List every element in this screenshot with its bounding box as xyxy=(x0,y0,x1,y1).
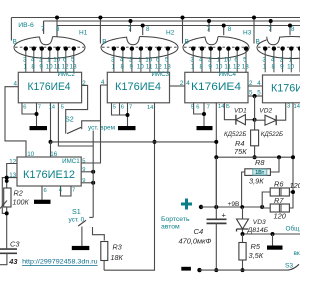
terminal minus xyxy=(181,267,191,271)
label KD522B 2 xyxy=(261,131,283,138)
svg-text:В: В xyxy=(102,39,106,46)
svg-text:S3: S3 xyxy=(285,263,293,270)
label R2 xyxy=(14,189,23,198)
svg-text:ИМС3: ИМС3 xyxy=(151,71,169,78)
label pin 4/8 xyxy=(31,56,35,70)
svg-text:10: 10 xyxy=(46,63,54,70)
tube H1 segment pin 10 lead xyxy=(56,46,60,72)
svg-text:+: + xyxy=(222,211,227,220)
chip name К176ИЕ4 xyxy=(115,81,161,93)
svg-text:5: 5 xyxy=(191,105,194,111)
label IMS1 xyxy=(62,158,80,165)
label 3 chip4 xyxy=(287,104,290,110)
svg-text:4: 4 xyxy=(199,56,203,63)
svg-text:Д814Б: Д814Б xyxy=(247,227,269,234)
label 4 chip1 xyxy=(13,80,17,87)
tube H4 segment pin 10 lead xyxy=(298,46,302,72)
svg-text:ИМС4: ИМС4 xyxy=(218,71,236,78)
label R4 xyxy=(235,139,244,148)
svg-text:6: 6 xyxy=(234,56,238,63)
svg-text:7: 7 xyxy=(41,26,45,33)
diode VD2 xyxy=(255,115,277,125)
svg-text:R8: R8 xyxy=(255,158,265,167)
tube H3 grid dashed line xyxy=(184,46,248,48)
chip name K176IE right xyxy=(271,83,303,95)
label pin 3/1 xyxy=(111,56,115,70)
svg-text:5: 5 xyxy=(243,56,247,63)
svg-text:уст. 0: уст. 0 xyxy=(69,217,85,224)
svg-text:6: 6 xyxy=(196,105,199,111)
svg-text:10: 10 xyxy=(137,63,145,70)
svg-text:4: 4 xyxy=(271,56,275,63)
label pin 3/1 xyxy=(23,56,27,70)
wire pin 7 chip1 xyxy=(36,103,38,126)
label 120 R7 xyxy=(274,212,287,221)
diode VD1 xyxy=(236,115,255,125)
VFD tube H3 envelope xyxy=(183,34,249,59)
svg-text:К176ИЕ4: К176ИЕ4 xyxy=(28,81,71,93)
label S3 xyxy=(285,263,293,270)
wire R5 bottom xyxy=(242,260,244,270)
label 14 chip2 xyxy=(147,105,154,111)
svg-text:3: 3 xyxy=(287,104,290,110)
junction chip2 gnd xyxy=(126,113,130,117)
junction rail2/tube2 xyxy=(129,19,133,23)
svg-text:В: В xyxy=(256,39,260,46)
svg-text:7: 7 xyxy=(129,105,132,111)
svg-text:3,5К: 3,5К xyxy=(249,251,264,260)
svg-text:вк: вк xyxy=(294,250,300,257)
svg-text:10: 10 xyxy=(145,56,153,63)
label 8 tube H1 xyxy=(56,26,60,33)
label C4 xyxy=(194,227,204,236)
wire 157 rail xyxy=(216,156,293,158)
wire R2 bottom xyxy=(6,207,8,248)
svg-text:1Вт: 1Вт xyxy=(255,170,265,176)
label 75K xyxy=(234,147,247,156)
junction rail1/tube4 xyxy=(252,16,256,20)
svg-text:http://299792458.3dn.ru: http://299792458.3dn.ru xyxy=(22,259,98,266)
junction bus end xyxy=(214,140,218,144)
label 14 chip1 xyxy=(49,105,56,111)
svg-text:R6: R6 xyxy=(274,180,284,189)
svg-text:3,9К: 3,9К xyxy=(249,177,264,186)
svg-text:7: 7 xyxy=(128,26,132,33)
label plus terminal xyxy=(181,199,192,210)
label 9 IMS1r xyxy=(82,167,85,173)
label 6 chip3 xyxy=(196,105,199,111)
junction 9V/216 xyxy=(214,205,218,209)
label 1Vt xyxy=(253,169,267,176)
wire bottom right xyxy=(200,269,289,271)
tube H3 segment pin 4 lead xyxy=(200,46,204,72)
junction pin12/pin13 xyxy=(5,176,9,180)
svg-text:7: 7 xyxy=(207,26,211,33)
label 7 tube H2 xyxy=(128,26,132,33)
label 10 IMS1 xyxy=(27,151,34,158)
tube H1 grid dashed line xyxy=(15,46,84,48)
svg-text:8: 8 xyxy=(120,63,124,70)
label R8 xyxy=(255,158,265,167)
svg-text:Бортсеть: Бортсеть xyxy=(161,216,190,223)
svg-text:1: 1 xyxy=(263,63,267,70)
tube H4 segment pin 3 lead xyxy=(263,46,267,72)
chip name К176ИЕ4 xyxy=(28,81,71,93)
wire IMS1 pin6 gnd xyxy=(41,186,43,200)
label pin 10/11 xyxy=(53,56,61,70)
svg-text:43: 43 xyxy=(8,257,18,266)
tube H3 segment pin 6 lead xyxy=(235,46,239,72)
wire S1 path to R3 xyxy=(93,227,105,241)
label 7 chip2b xyxy=(129,105,132,111)
junction 157/293 xyxy=(291,155,295,159)
tube H2 segment pin 3 lead xyxy=(112,46,116,72)
label 7 tube H3 xyxy=(207,26,211,33)
svg-text:7: 7 xyxy=(38,105,41,111)
wire common rail xyxy=(243,233,301,235)
tube H1 pin7 heater lead xyxy=(43,21,45,32)
wire chip3 pin14 drop xyxy=(215,103,217,207)
label VD3 xyxy=(253,219,266,226)
svg-text:1: 1 xyxy=(217,56,221,63)
tube H1 segment pin 5 lead xyxy=(72,46,76,72)
junction C4/bottom xyxy=(214,268,218,272)
label pin 4/8 xyxy=(199,56,203,70)
svg-text:1: 1 xyxy=(111,63,115,70)
tube H1 segment pin 6 lead xyxy=(64,46,68,72)
label pin 6/12 xyxy=(233,56,241,70)
svg-text:H2: H2 xyxy=(166,30,175,37)
label pin 10/11 xyxy=(145,56,153,70)
label 5 chip1 xyxy=(61,105,64,111)
wire S1 feed xyxy=(89,131,93,218)
wire chip1 pin2 to S2 pivot xyxy=(66,85,88,133)
label 8 tube H3 xyxy=(228,26,232,33)
svg-text:100К: 100К xyxy=(13,198,30,207)
svg-text:VD1: VD1 xyxy=(234,108,247,115)
wire IMS1 pin13 left xyxy=(2,178,17,214)
junction rail2/tube3 xyxy=(207,19,211,23)
label ust vrem xyxy=(88,125,115,132)
svg-text:8: 8 xyxy=(228,26,232,33)
wire chip3 pin13 to VD1 xyxy=(224,103,236,120)
svg-text:9: 9 xyxy=(82,178,85,184)
wire IMS1 pin11 right xyxy=(81,182,93,184)
svg-text:13: 13 xyxy=(242,63,250,70)
label VD2 xyxy=(259,108,272,115)
svg-text:H3: H3 xyxy=(243,30,252,37)
label 14 chip3 xyxy=(218,104,225,110)
wire chip1 pin4 to IMS1 pin10 xyxy=(5,87,26,157)
wire heater rail 3 xyxy=(55,16,300,38)
counter IC U5 box xyxy=(263,75,308,103)
wire pin 5 chip2 xyxy=(112,103,128,115)
junction R2/pin13 path xyxy=(5,211,9,215)
wire heater rail 2 xyxy=(44,21,300,40)
zener VD3 xyxy=(237,219,249,232)
wire pin 6 chip3 xyxy=(194,103,204,114)
tube H2 grid dashed line xyxy=(102,46,177,48)
wire IMS1 pin9 right xyxy=(81,171,93,173)
label pin 2/9 xyxy=(129,56,133,70)
junction 9V/262 xyxy=(260,205,264,209)
wire R5 top xyxy=(242,234,244,243)
label B tube H3 xyxy=(185,39,189,46)
svg-text:3: 3 xyxy=(190,56,194,63)
label 100K xyxy=(13,198,30,207)
junction chip1 xyxy=(35,112,39,116)
label 2 chip2 xyxy=(180,80,184,87)
wire pin 6 chip1 xyxy=(22,103,37,114)
svg-text:14: 14 xyxy=(147,105,154,111)
wire R6R7 right xyxy=(289,192,293,208)
svg-text:7: 7 xyxy=(207,105,210,111)
junction rail2/tube4 xyxy=(269,19,273,23)
terminal bar common xyxy=(267,246,283,250)
label ust 0 xyxy=(69,217,85,224)
svg-text:5: 5 xyxy=(165,56,169,63)
wire chip1 pin14 xyxy=(50,103,52,142)
wire S1 contact xyxy=(81,227,83,246)
tube H4 segment pin 4 lead xyxy=(272,46,276,72)
label 14 chip4 xyxy=(294,104,301,110)
label ИМС4 xyxy=(218,71,236,78)
svg-text:2: 2 xyxy=(82,80,86,87)
svg-text:8: 8 xyxy=(271,63,275,70)
svg-text:5: 5 xyxy=(71,56,75,63)
junction R4 node xyxy=(253,155,257,159)
svg-text:4: 4 xyxy=(186,80,190,87)
wire IMS1 pin12 to R2 xyxy=(7,164,17,189)
svg-text:4: 4 xyxy=(13,80,17,87)
tube H2 pin7 heater lead xyxy=(130,21,132,32)
svg-text:К176И: К176И xyxy=(271,83,300,95)
svg-text:К176ИЕ4: К176ИЕ4 xyxy=(115,81,161,93)
wire VD3 bottom xyxy=(242,229,244,234)
svg-text:5: 5 xyxy=(257,90,261,97)
svg-text:1: 1 xyxy=(23,63,27,70)
label 5 chip4 xyxy=(257,90,261,97)
svg-text:11: 11 xyxy=(224,63,231,70)
terminal bar S1 xyxy=(72,246,90,250)
tube H4 pin B lead xyxy=(253,18,255,44)
label pin 4/8 xyxy=(120,56,124,70)
svg-text:2: 2 xyxy=(249,80,253,87)
svg-text:КД522Б: КД522Б xyxy=(224,131,246,138)
tube H2 segment pin 2 lead xyxy=(130,46,134,72)
wire chip3-chip4 upper link xyxy=(248,85,263,87)
terminal minus dot xyxy=(197,268,201,272)
wire VD2 to chip4 xyxy=(276,103,286,120)
svg-text:14: 14 xyxy=(294,104,301,110)
label 4 IMS1b xyxy=(59,188,63,194)
label 18K xyxy=(111,253,124,262)
label R5 xyxy=(251,242,261,251)
tube H4 grid dashed line xyxy=(258,46,299,48)
label pin 6/12 xyxy=(62,56,70,70)
svg-text:ИВ-6: ИВ-6 xyxy=(18,22,34,29)
svg-text:6: 6 xyxy=(23,105,26,111)
label 7 tube H1 xyxy=(41,26,45,33)
svg-text:ИМС2: ИМС2 xyxy=(57,71,75,78)
label D814B xyxy=(247,227,269,234)
wire C4 bottom lead xyxy=(215,223,217,270)
tube H2 pin B lead xyxy=(99,18,101,44)
svg-text:9: 9 xyxy=(208,63,212,70)
wire IMS1 pin5 right xyxy=(81,85,100,163)
label 43 xyxy=(8,257,18,266)
wire terminal drop xyxy=(272,234,274,246)
label 13 chip3 xyxy=(226,104,230,110)
label Bortset xyxy=(161,216,190,223)
label R6 xyxy=(274,180,284,189)
terminal +9V xyxy=(199,205,203,209)
tube H3 pin7 heater lead xyxy=(208,21,210,32)
tube H2 segment pin 10 lead xyxy=(148,46,152,72)
label pin 6/12 xyxy=(155,56,163,70)
wire chip2-chip3 link xyxy=(170,85,185,87)
counter IC U4 box xyxy=(185,72,248,103)
label pin 10/11 xyxy=(224,56,232,70)
wire chip2 pin5 long drop xyxy=(104,103,154,270)
svg-text:6: 6 xyxy=(44,188,47,194)
label R3 xyxy=(113,242,122,251)
junction common/272 xyxy=(271,232,275,236)
label H2 xyxy=(166,30,175,37)
label 16 IMS1 xyxy=(50,151,57,158)
tube H4 pin7 heater lead xyxy=(270,21,272,32)
chip name К176ИЕ4 xyxy=(191,81,241,93)
svg-text:автом: автом xyxy=(161,224,180,231)
tube H1 segment pin 2 lead xyxy=(40,46,44,72)
tube H2 segment pin 1 lead xyxy=(139,46,143,72)
label 4 chip4 xyxy=(257,80,261,87)
label pin 3/1 xyxy=(190,56,194,70)
resistor R6 xyxy=(270,188,289,196)
svg-text:470,0мкФ: 470,0мкФ xyxy=(179,237,212,246)
svg-text:R5: R5 xyxy=(251,242,261,251)
svg-text:2: 2 xyxy=(129,56,133,63)
svg-text:11: 11 xyxy=(54,63,61,70)
label avtom xyxy=(161,224,180,231)
wire pin 6 chip2 xyxy=(119,103,121,115)
junction chip3 xyxy=(202,112,206,116)
label 7 chip1 xyxy=(38,105,41,111)
label 5 chip3b xyxy=(191,105,194,111)
resistor R2 xyxy=(0,188,11,209)
switch S2 blade xyxy=(67,127,81,133)
junction rail1/tube2 xyxy=(98,16,102,20)
label H3 xyxy=(243,30,252,37)
svg-text:9: 9 xyxy=(82,167,85,173)
label ИМС3 xyxy=(151,71,169,78)
tube H2 segment pin 6 lead xyxy=(157,46,161,72)
svg-text:11: 11 xyxy=(146,63,153,70)
wire C3 bottom xyxy=(0,253,7,264)
label 120 R6 xyxy=(290,181,303,190)
label 13 IMS1 xyxy=(9,172,16,179)
wire C4 top lead xyxy=(215,157,217,219)
wire R8 right lead xyxy=(270,157,279,172)
svg-text:В: В xyxy=(185,39,189,46)
svg-text:8: 8 xyxy=(31,63,35,70)
svg-text:ИМС1: ИМС1 xyxy=(62,158,80,165)
label pin 1/10 xyxy=(287,56,295,70)
resistor R8 xyxy=(245,169,271,176)
wire chip4 pin13 drop xyxy=(292,103,294,192)
svg-text:2: 2 xyxy=(208,56,212,63)
junction common/VD3 xyxy=(241,232,245,236)
svg-text:2: 2 xyxy=(280,56,284,63)
label 7 tube H4 xyxy=(268,26,272,33)
tube H4 pin8 heater lead xyxy=(289,26,291,36)
tube H3 segment pin 2 lead xyxy=(209,46,213,72)
label pin 4/8 xyxy=(271,56,275,70)
label ИМС2 xyxy=(57,71,75,78)
svg-text:9: 9 xyxy=(280,63,284,70)
label 6 IMS1 xyxy=(44,188,47,194)
wire chip1 pin5 xyxy=(58,103,93,146)
svg-text:18К: 18К xyxy=(111,253,124,262)
svg-text:4: 4 xyxy=(120,56,124,63)
tube H1 segment pin 4 lead xyxy=(32,46,36,72)
VFD tube H1 envelope xyxy=(14,34,85,59)
svg-text:Б: Б xyxy=(226,104,230,110)
wire S2 contact to chip2 pin4 xyxy=(82,85,108,129)
ground bar chip2 xyxy=(118,126,136,130)
svg-text:16: 16 xyxy=(50,151,57,158)
svg-text:1: 1 xyxy=(138,56,142,63)
label 7 chip3 xyxy=(207,105,210,111)
wire IMS1 pin16 xyxy=(50,142,52,157)
svg-text:VD3: VD3 xyxy=(253,219,266,226)
label R7 xyxy=(274,196,284,205)
resistor R3 xyxy=(101,242,108,261)
label 5 chip2b xyxy=(113,105,116,111)
tube H3 segment pin 10 lead xyxy=(226,46,230,72)
tube H1 segment pin 3 lead xyxy=(24,46,28,72)
svg-text:C4: C4 xyxy=(194,227,204,236)
label 5 chip3r xyxy=(249,90,253,97)
svg-text:7: 7 xyxy=(268,26,272,33)
label pin 1/10 xyxy=(137,56,145,70)
label 6 chip1 xyxy=(23,105,26,111)
label B tube H1 xyxy=(13,39,17,46)
resistor R5 xyxy=(239,243,246,261)
label 3.9K xyxy=(249,177,264,186)
svg-text:R2: R2 xyxy=(14,189,23,198)
tube H2 segment pin 4 lead xyxy=(121,46,125,72)
svg-text:1: 1 xyxy=(191,63,195,70)
svg-text:12: 12 xyxy=(155,63,163,70)
junction VD node xyxy=(253,118,257,122)
label 8 tube H4 xyxy=(291,26,295,33)
tube H3 pin8 heater lead xyxy=(223,26,225,36)
oscillator IC U1 box xyxy=(17,157,81,186)
svg-text:4: 4 xyxy=(101,79,105,86)
capacitor C4 plates xyxy=(207,219,227,223)
tube H3 segment pin 5 lead xyxy=(244,46,248,72)
svg-text:3: 3 xyxy=(111,56,115,63)
resistor R4 xyxy=(251,130,259,146)
capacitor C3 xyxy=(0,249,17,253)
chip name K176IE12 xyxy=(23,169,75,181)
counter IC U2 box xyxy=(18,72,81,103)
VFD tube H2 envelope xyxy=(101,34,178,59)
label 2 chip1 xyxy=(82,80,86,87)
svg-text:10: 10 xyxy=(215,63,223,70)
label C4 value xyxy=(179,237,212,246)
